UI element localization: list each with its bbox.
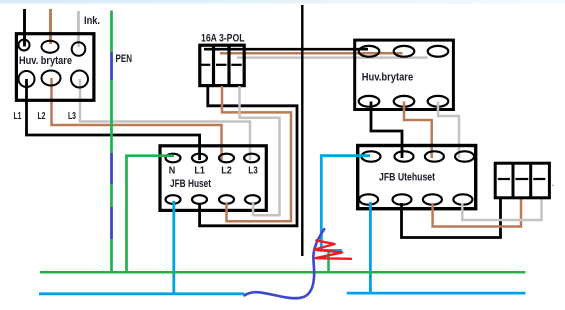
terminal bottom3 JFB Huset <box>219 195 234 204</box>
annotation blue scribble <box>245 229 325 298</box>
wire brown 16A breaker top to right main switch <box>220 52 403 55</box>
wire gray 16A breaker bottom to JFB Huset <box>240 86 280 215</box>
wall partition line <box>301 5 303 256</box>
terminal bottom3 JFB Utehuset <box>423 194 442 204</box>
main switch right (Huv.brytare) box <box>355 40 454 109</box>
wire green N feed to JFB Huset <box>127 156 175 272</box>
main switch left (Huv. brytare) box <box>16 34 94 101</box>
terminal ellipse top3 right switch <box>428 46 449 57</box>
wire service L1 black incoming <box>23 9 26 47</box>
wire L3 gray from left main switch to JFB Huset L3 <box>80 79 250 160</box>
breaker 16A 3-POL box <box>200 45 244 85</box>
annotation red scribble <box>314 240 351 258</box>
wire green stub <box>327 252 330 273</box>
breaker 16A pole1 dash <box>201 64 211 66</box>
svg-text:N: N <box>169 166 176 177</box>
wire cyan neutral drop JFB Utehuset <box>369 202 372 295</box>
terminal bottom4 JFB Huset <box>245 195 260 204</box>
terminal L2 top JFB Huset <box>219 154 234 163</box>
svg-text:L3: L3 <box>248 166 258 177</box>
breaker right pole2 dash <box>516 178 529 180</box>
terminal top4 JFB Utehuset <box>455 151 474 161</box>
JFB Huset box <box>160 146 266 211</box>
terminal bottom4 JFB Utehuset <box>453 194 472 204</box>
wire gray 16A breaker top to right main switch <box>237 56 428 59</box>
terminal ellipse bottom1 right switch <box>359 96 380 107</box>
terminal L3 top JFB Huset <box>244 154 259 163</box>
wire service L3 gray incoming (Ink.) <box>77 11 80 47</box>
terminal ellipse top2 right switch <box>394 46 415 57</box>
terminal ellipse bottom2 right switch <box>394 96 415 107</box>
wire brown right switch to JFB Utehuset <box>404 102 432 159</box>
wire PEN conductor green with blue marks <box>110 11 113 272</box>
svg-text:L2: L2 <box>221 166 232 177</box>
neutral bus cyan left segment <box>39 292 244 295</box>
wire brown JFB Utehuset to right breaker <box>433 198 521 227</box>
terminal N top JFB Huset <box>166 154 181 163</box>
wire cyan neutral feed to JFB Utehuset <box>321 156 370 250</box>
terminal circle top1 <box>19 40 30 51</box>
wire brown 16A breaker bottom to JFB Huset <box>222 86 291 221</box>
wire gray right switch to JFB Utehuset <box>438 102 459 159</box>
svg-text:16A 3-POL: 16A 3-POL <box>201 33 245 45</box>
terminal ellipse bottom3 right switch <box>428 96 449 107</box>
svg-text:L1: L1 <box>194 166 205 177</box>
terminal top3 JFB Utehuset <box>425 151 444 161</box>
wire L2 brown from left main switch to JFB Huset L2 <box>52 78 222 160</box>
svg-text:Huv. brytare: Huv. brytare <box>19 55 72 67</box>
svg-text:L2: L2 <box>38 111 46 122</box>
JFB Utehuset box <box>358 146 476 209</box>
svg-text:Ink.: Ink. <box>84 15 100 27</box>
wire gray JFB Utehuset to right breaker <box>462 198 541 220</box>
neutral bus cyan right segment <box>347 292 526 295</box>
terminal circle top3 <box>72 42 86 56</box>
breaker right pole3 dash <box>533 178 545 180</box>
svg-text:JFB Utehuset: JFB Utehuset <box>379 172 435 184</box>
wire cyan stub <box>317 249 342 252</box>
terminal circle bottom1 <box>19 71 35 87</box>
terminal circle bottom2 <box>42 71 61 86</box>
svg-text:PEN: PEN <box>116 53 133 65</box>
terminal top2 JFB Utehuset <box>395 151 414 161</box>
wire L1 black from left main switch to JFB Huset L1 <box>27 79 200 160</box>
terminal circle bottom3 <box>71 71 88 88</box>
wire black JFB Utehuset to right breaker <box>402 198 501 238</box>
terminal circle top2 <box>42 41 59 53</box>
stray gray mark <box>552 184 554 186</box>
svg-text:L1: L1 <box>14 111 22 122</box>
wire black right switch to JFB Utehuset <box>371 102 402 159</box>
terminal bottom2 JFB Utehuset <box>393 194 412 204</box>
breaker 16A pole3 dash <box>231 64 242 66</box>
terminal L1 top JFB Huset <box>192 154 207 163</box>
terminal bottom1 JFB Utehuset <box>359 194 378 204</box>
svg-text:JFB Huset: JFB Huset <box>170 178 211 190</box>
wire black 16A breaker bottom to JFB Huset <box>200 86 297 226</box>
wire black 16A breaker top to right main switch <box>204 48 368 51</box>
wire cyan neutral drop JFB Huset <box>172 201 175 295</box>
terminal top1 JFB Utehuset <box>362 151 381 161</box>
breaker 16A pole2 dash <box>216 64 227 66</box>
svg-text:Huv.brytare: Huv.brytare <box>362 72 414 84</box>
terminal bottom1 JFB Huset <box>166 195 181 204</box>
wire service L2 brown incoming <box>49 9 52 44</box>
breaker right 3-pole box <box>495 163 549 198</box>
breaker right pole1 dash <box>498 178 510 180</box>
terminal ellipse top1 right switch <box>359 46 380 57</box>
terminal bottom2 JFB Huset <box>192 195 207 204</box>
earth bus green <box>40 271 526 274</box>
svg-text:L3: L3 <box>68 111 76 122</box>
